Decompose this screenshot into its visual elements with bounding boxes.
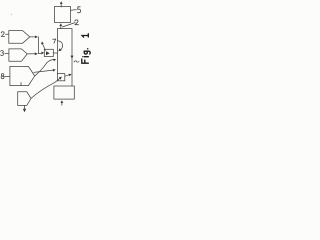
P1 output arrow to bus: [30, 36, 36, 38]
stem + blob below P4: [24, 105, 26, 109]
arrow from box B to box A: [60, 25, 62, 28]
bus vertical: [38, 37, 40, 54]
SQ output arrow to right wire: [65, 75, 70, 76]
vertical wire from junction down to square: [56, 53, 58, 74]
label 2: [75, 20, 79, 25]
label 5: [78, 7, 81, 13]
VG box (variable gain): [44, 49, 53, 56]
wire bus to VG box: [39, 52, 42, 54]
down arrowhead on right wire: [70, 56, 73, 59]
label 2 of P1: [1, 32, 4, 37]
up arrow into box C bottom: [61, 102, 63, 105]
tick inside P3: [20, 82, 22, 85]
triangle inside VG: [46, 51, 50, 55]
D2 diagonal from P4 into dot-square: [31, 79, 60, 99]
curved leader arrow from 7: [57, 41, 62, 51]
pentagon P1: [9, 31, 30, 44]
pentagon P2: [9, 49, 27, 61]
variable arrow through VG: [43, 44, 46, 50]
label 8 of P3: [1, 74, 4, 76]
squiggle label right of wire: [74, 61, 79, 62]
label 7: [53, 39, 56, 43]
leader P3: [5, 75, 10, 77]
label 3 of P2: [1, 51, 4, 56]
arrow out of top of box A: [60, 3, 62, 7]
leader P1: [6, 33, 9, 35]
steep curving line from P3 tip to vertical wire: [35, 59, 55, 76]
box 5 (top box A): [55, 7, 71, 23]
P2 output wire: [27, 53, 35, 55]
box C (bottom box): [54, 86, 74, 99]
pentagon P3: [10, 66, 35, 85]
VG output wire: [53, 52, 57, 54]
faint scan speck top-left: [11, 14, 12, 15]
dot square SQ: [57, 74, 64, 81]
leader for label 2: [62, 23, 75, 27]
P3 gentle line to vertical wire: [34, 70, 53, 72]
Fig. 1 caption (rotated, drawn as paths): [82, 34, 90, 63]
leader P2: [5, 52, 8, 54]
box B (open bottom): top edge and two side wires: [57, 29, 72, 86]
leader for label 5: [71, 9, 76, 12]
pentagon P4 (bottom left): [18, 92, 31, 106]
